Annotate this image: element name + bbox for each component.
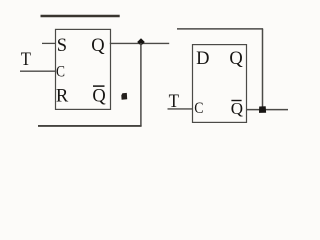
flip-flop U2 body (D flip-flop) xyxy=(193,45,247,123)
svg-text:D: D xyxy=(196,49,209,69)
svg-text:Q: Q xyxy=(229,49,243,69)
svg-text:R: R xyxy=(56,87,69,107)
svg-text:S: S xyxy=(57,36,67,56)
junction dot on U1 Q output xyxy=(137,38,145,45)
wire: stub into U1 S input xyxy=(42,42,55,44)
overline of U1 Qbar xyxy=(93,85,105,87)
svg-text:Q: Q xyxy=(231,99,243,118)
wire: bottom feedback segment under U1 xyxy=(38,125,142,127)
overline of U2 Qbar xyxy=(231,100,241,102)
svg-text:C: C xyxy=(194,100,203,117)
stray dot near U1 Qbar output xyxy=(121,93,127,100)
flip-flop U1 body (clocked S-C-R latch) xyxy=(56,29,111,109)
svg-text:Q: Q xyxy=(92,87,106,107)
wire: T input to U1 C pin xyxy=(20,70,55,72)
wire: vertical feedback from Q junction down xyxy=(140,43,142,126)
wire: U2 Qbar output running right xyxy=(246,109,288,111)
wire: T input to U2 C pin xyxy=(168,108,193,110)
wire: top segment above U2 xyxy=(177,28,263,30)
svg-text:Q: Q xyxy=(91,36,105,56)
svg-text:T: T xyxy=(21,50,31,70)
wire: right vertical drop to Qbar line xyxy=(262,29,264,110)
junction dot at U2 Qbar output xyxy=(259,106,266,113)
wire: top feedback segment above U1 xyxy=(41,15,120,17)
wire: U1 Q output running right xyxy=(110,42,169,44)
svg-text:C: C xyxy=(56,63,65,80)
